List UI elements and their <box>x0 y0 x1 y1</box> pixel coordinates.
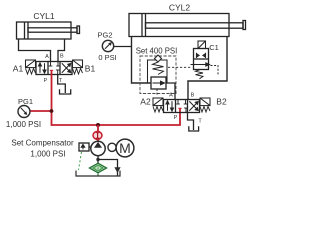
svg-text:P: P <box>174 115 178 121</box>
pilot dashed line reducing valve to C1 <box>168 66 192 68</box>
cylinder CYL1 label <box>33 11 55 21</box>
valve V2 position 3 crossed arrows <box>189 101 198 110</box>
node P (valve 1) <box>44 78 48 84</box>
pump P1 <box>91 141 105 155</box>
wire reducing valve outlet to valve V2 port A <box>166 83 175 100</box>
compensator box <box>79 143 91 151</box>
valve V1 body (4/3 solenoid valve) <box>36 62 72 75</box>
valve C1 flow arrow <box>191 63 210 66</box>
svg-text:CYL2: CYL2 <box>169 3 191 13</box>
wire PG2 to CYL2 cap line <box>114 46 132 48</box>
pressure reducing valve body <box>151 77 166 89</box>
valve V1 position 1 arrows <box>39 63 47 73</box>
node suction junction <box>96 158 99 161</box>
valve C1 solenoid <box>198 41 206 49</box>
valve V1 left solenoid <box>26 60 36 68</box>
wire CYL2 rod end to valve V2 port B <box>188 37 227 100</box>
wire pressure line valve V1 P to manifold (red) <box>52 71 181 126</box>
svg-text:B2: B2 <box>216 97 227 107</box>
node B (valve 1) <box>60 54 64 60</box>
wire valve V1 port T to tank <box>58 75 66 94</box>
svg-text:A: A <box>169 93 173 99</box>
gauge PG1 label <box>18 97 33 106</box>
label 1,000 PSI (compensator) <box>30 150 65 159</box>
svg-text:A: A <box>45 54 49 60</box>
check valve diamond <box>155 55 162 62</box>
valve V1 center position blocked ports <box>49 62 60 75</box>
coupling circle <box>108 143 116 151</box>
valve V2 right solenoid <box>200 98 210 106</box>
valve V1 right solenoid <box>73 60 83 68</box>
valve C1 label <box>209 43 219 52</box>
node T (valve 2) <box>198 119 202 125</box>
valve C1 body <box>194 49 209 70</box>
wire CYL2 cap port down to reducing valve line <box>132 37 152 84</box>
valve C1 check position <box>196 53 205 58</box>
wire pump suction <box>97 156 99 163</box>
green dashed case drain <box>79 152 82 170</box>
svg-text:B1: B1 <box>85 64 96 74</box>
tank reservoir <box>76 171 120 177</box>
reducing valve spring <box>153 62 164 75</box>
motor M1 <box>116 139 134 157</box>
gauge PG1 <box>18 106 30 118</box>
cylinder CYL1 <box>17 22 80 39</box>
pressure reducing valve bypass loop <box>148 60 168 83</box>
svg-text:1,000 PSI: 1,000 PSI <box>6 120 41 129</box>
pilot dashed stub below reducing valve <box>156 89 158 95</box>
svg-text:PG2: PG2 <box>97 31 112 40</box>
svg-text:Set 400 PSI: Set 400 PSI <box>136 47 178 56</box>
wire filter to tank <box>97 173 99 176</box>
svg-text:C1: C1 <box>209 43 219 52</box>
valve V2 position 1 arrows <box>166 101 174 111</box>
valve V1 right spring <box>73 69 83 75</box>
pressure reducing valve arrow <box>153 81 165 85</box>
valve V2 center position blocked ports <box>176 100 188 113</box>
cylinder CYL2 label <box>169 3 191 13</box>
wire valve V2 port T to tank <box>188 113 194 131</box>
valve V2 body (4/3 solenoid valve) <box>164 100 200 113</box>
label Set 400 PSI <box>136 47 178 56</box>
test point TP (red ellipse) <box>93 131 102 139</box>
valve V2 left solenoid <box>153 98 163 106</box>
valve V1 label B1 <box>85 64 96 74</box>
svg-text:B: B <box>191 93 195 99</box>
valve C1 pilot dashes <box>211 66 219 77</box>
svg-text:P: P <box>44 78 48 84</box>
node A (valve 1) <box>45 54 49 60</box>
gauge PG2 value label <box>98 53 116 62</box>
wire red P stub crossbars <box>50 70 182 108</box>
svg-text:B: B <box>60 54 64 60</box>
valve V2 left spring <box>153 107 163 113</box>
valve C1 spring <box>196 70 204 79</box>
node junction dot PG1 <box>50 109 54 113</box>
node junction dot pump branch <box>96 123 100 127</box>
node B (valve 2) <box>191 93 195 99</box>
svg-text:A1: A1 <box>13 64 24 74</box>
cylinder CYL2 <box>129 14 246 37</box>
svg-text:PG1: PG1 <box>18 97 33 106</box>
gauge PG2 label <box>97 31 112 40</box>
svg-text:M: M <box>119 140 131 156</box>
valve V2 label B2 <box>216 97 227 107</box>
dashed enclosure box (reducing valve assembly) <box>140 56 176 94</box>
wire CYL1 rod end to valve A1 port B <box>58 39 65 62</box>
svg-text:1,000 PSI: 1,000 PSI <box>30 150 65 159</box>
tank symbol (valve 2 drain) <box>189 126 199 131</box>
valve V2 label A2 <box>140 97 151 107</box>
wire filter bypass <box>98 160 118 177</box>
valve V1 position 3 crossed arrows <box>62 63 71 72</box>
wire pump to manifold (red riser) <box>97 125 99 144</box>
filter F1 (green diamond) <box>90 163 107 173</box>
tank symbol (valve 1 drain) <box>60 89 71 94</box>
check valve bypass arrow <box>114 167 120 173</box>
valve V1 left spring <box>26 69 36 75</box>
gauge PG2 <box>102 40 113 51</box>
svg-text:A2: A2 <box>140 97 151 107</box>
node T (valve 1) <box>59 78 63 84</box>
gauge PG1 value label <box>6 120 41 129</box>
svg-text:Set Compensator: Set Compensator <box>11 139 74 148</box>
svg-text:0 PSI: 0 PSI <box>98 53 116 62</box>
node P (valve 2) <box>174 115 178 121</box>
valve V2 right spring <box>200 107 210 113</box>
wire PG1 to pressure line (red) <box>31 110 52 112</box>
label Set Compensator <box>11 139 74 148</box>
wire CYL1 cap to valve A1 port A <box>19 39 51 62</box>
svg-text:CYL1: CYL1 <box>33 11 55 21</box>
node A (valve 2) <box>169 93 173 99</box>
valve V1 label A1 <box>13 64 24 74</box>
compensator arrow <box>81 144 85 149</box>
